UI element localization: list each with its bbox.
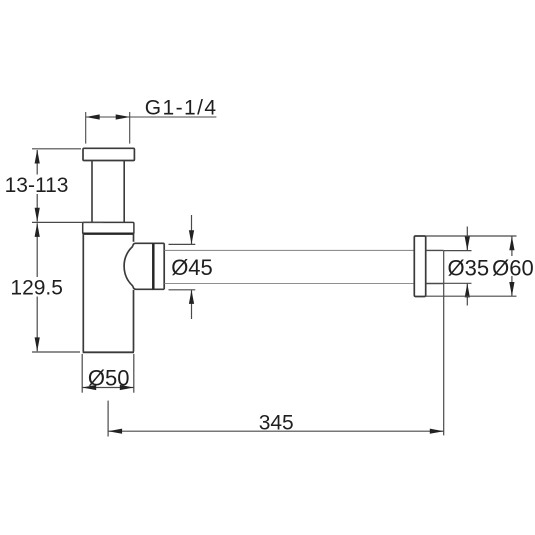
D45 label	[170, 255, 213, 280]
svg-text:Ø50: Ø50	[88, 366, 130, 391]
D45 arrows	[189, 230, 194, 304]
dimension D50	[82, 354, 134, 393]
trap body top plate	[83, 222, 134, 233]
D60 label	[491, 255, 534, 280]
svg-text:G1-1/4: G1-1/4	[145, 96, 218, 119]
dimension 129.5	[32, 223, 80, 352]
D35 label	[447, 255, 490, 280]
D35 arrows	[465, 237, 470, 298]
13-113 label	[4, 174, 69, 197]
129.5 arrows	[35, 223, 40, 352]
wall stub pipe	[426, 250, 444, 283]
horizontal outlet tube	[165, 250, 415, 283]
trap body cylinder	[83, 234, 134, 353]
dimension D45	[169, 215, 196, 319]
dimension 345	[108, 250, 444, 436]
345 arrows	[108, 429, 444, 434]
svg-text:Ø35: Ø35	[448, 255, 490, 280]
G1-1/4 arrows	[86, 114, 130, 119]
elbow dome and coupling nut	[124, 243, 164, 289]
svg-text:Ø45: Ø45	[171, 255, 213, 280]
13-113 arrows	[35, 150, 40, 222]
dimension D35	[444, 227, 472, 306]
dimension 13-113	[32, 149, 103, 223]
svg-text:129.5: 129.5	[10, 277, 63, 300]
nut face line	[152, 243, 155, 289]
dimension G1-1/4	[86, 112, 217, 144]
svg-text:345: 345	[259, 412, 294, 435]
inlet flange (top hat)	[83, 148, 134, 160]
svg-text:13-113: 13-113	[5, 174, 69, 197]
svg-text:Ø60: Ø60	[492, 255, 534, 280]
D50 arrows	[82, 385, 134, 390]
D60 arrows	[509, 236, 514, 296]
dimension D60	[426, 236, 517, 296]
inlet vertical pipe	[92, 161, 124, 223]
129.5 label	[10, 277, 64, 300]
wall flange	[414, 236, 425, 297]
